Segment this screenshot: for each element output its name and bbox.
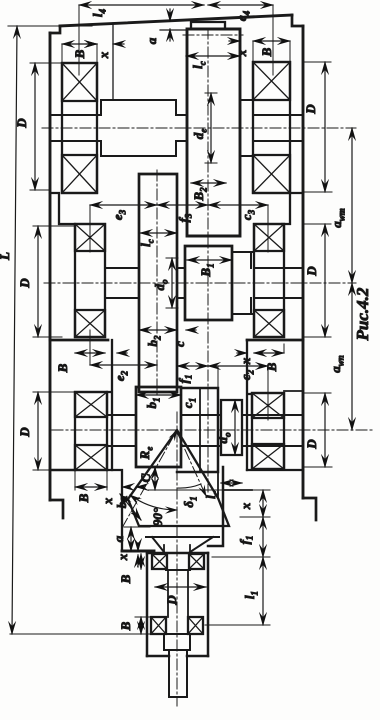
dimension a top gap	[169, 9, 171, 21]
dimension x gap left wall	[117, 352, 127, 354]
bearing B-right lower row	[254, 310, 284, 337]
svg-text:B: B	[72, 49, 87, 59]
bevel wheel face extension down	[217, 472, 219, 498]
shaft A left end	[50, 115, 101, 141]
svg-text:lс: lс	[138, 239, 156, 247]
centerline vertical bevel-pinion shaft	[176, 412, 178, 706]
centerline shaft A (output shaft axis)	[42, 127, 356, 129]
shaft neck into sleeve right	[190, 537, 213, 552]
dimension x housing to sleeve gap	[137, 543, 139, 551]
dimension D bearing C-right	[324, 393, 326, 467]
angle arc delta1	[177, 484, 201, 488]
svg-text:C: C	[138, 473, 153, 482]
bearing B-left outer	[75, 224, 105, 337]
bearing C-right upper row	[252, 393, 284, 418]
housing right wall	[302, 26, 305, 498]
dimension c2	[208, 365, 268, 367]
svg-text:B: B	[118, 574, 133, 584]
vertical shaft collar below lower bearing	[164, 634, 190, 650]
dimension de hub diameter gear A	[210, 93, 212, 163]
svg-text:f3: f3	[176, 213, 194, 222]
svg-text:B: B	[259, 47, 274, 57]
dimension c4	[208, 4, 273, 6]
dimension b2 wheel B width	[139, 329, 177, 331]
svg-text:D: D	[17, 278, 32, 289]
housing inner wall right of cavity upper part	[247, 340, 252, 470]
bearing A-right lower row	[253, 155, 290, 193]
dimension e3	[90, 204, 157, 206]
dimension D bearing A-right	[324, 62, 326, 192]
dimension lc bevel hub length	[221, 482, 242, 484]
svg-text:x: x	[238, 502, 253, 510]
svg-text:90°: 90°	[150, 507, 165, 526]
dimension e2	[90, 364, 157, 366]
dimension c gap wheel B to pinion B	[186, 329, 196, 331]
dimension B bearing V-upper width	[140, 554, 142, 569]
bearing A-left outer	[62, 63, 97, 193]
bevel wheel hub	[221, 400, 242, 455]
svg-text:D: D	[304, 266, 319, 277]
svg-text:x: x	[115, 553, 130, 561]
bearing V-lower right row	[188, 617, 203, 634]
dimension b bevel face width	[120, 494, 141, 520]
centerline gear midplane stage 2	[207, 28, 209, 492]
housing ledge left below B bearing	[50, 339, 108, 342]
svg-text:B: B	[76, 493, 91, 503]
svg-text:e3: e3	[110, 209, 128, 220]
shaft C left section	[107, 415, 136, 446]
svg-text:D: D	[17, 427, 32, 438]
dimension lc hub length gear A	[186, 55, 240, 57]
bearing B-left lower row	[75, 310, 105, 337]
svg-text:awп: awп	[328, 355, 346, 373]
dimension x gap right wall	[237, 352, 247, 354]
dimension x top-left gap	[86, 43, 97, 45]
housing ledge left between A and B bearings	[50, 193, 75, 224]
dimension B bearing A-left width	[62, 43, 97, 45]
housing right lip	[292, 15, 303, 26]
shaft B left section	[105, 268, 139, 298]
bearing A-right outer	[253, 62, 290, 193]
dimension x top-right gap	[229, 40, 240, 42]
bearing B-right outer	[254, 224, 284, 337]
svg-text:f1: f1	[176, 375, 194, 384]
svg-text:x: x	[100, 497, 115, 505]
bevel pinion cone	[128, 430, 229, 526]
bevel pinion back cone face	[146, 536, 219, 538]
svg-text:x: x	[238, 357, 253, 365]
dimension B bearing B-right width	[254, 352, 284, 354]
cone distance line Re	[122, 430, 177, 528]
svg-text:L: L	[0, 252, 12, 261]
gear A rim cap	[191, 22, 225, 29]
shaft A enlarged section	[101, 100, 176, 156]
pinion C stage 1	[136, 387, 181, 467]
housing bevel cavity right wall	[208, 467, 223, 546]
svg-text:D: D	[164, 595, 179, 606]
svg-text:c: c	[172, 341, 187, 347]
svg-text:c4: c4	[234, 10, 252, 21]
centerline shaft B (intermediate shaft axis)	[44, 282, 356, 284]
svg-text:dо: dо	[152, 279, 170, 291]
dimension awt center distance stage 2	[351, 128, 353, 283]
dimension B bearing B-left width	[75, 352, 105, 354]
shaft C right section	[242, 415, 303, 446]
dimension B bearing A-right width	[253, 40, 290, 42]
bearing C-left lower row	[75, 445, 107, 470]
dimension B bearing V-lower width	[140, 617, 142, 634]
svg-text:dе: dе	[191, 129, 209, 140]
pinion B stage 2	[185, 246, 232, 320]
bearing sleeve walls	[147, 553, 208, 656]
dimension l4	[79, 4, 204, 6]
shaft A neck to gear	[176, 115, 187, 141]
bevel wheel face extension up	[217, 366, 219, 388]
dimension D sleeve bore	[155, 586, 206, 588]
centerline shaft C (bevel wheel shaft axis)	[52, 429, 374, 431]
bearing C-right lower row	[252, 444, 284, 469]
dimension D bearing C-left	[37, 392, 39, 470]
svg-text:D: D	[14, 118, 29, 129]
wheel B stage 1	[139, 174, 177, 392]
dimension f3	[157, 204, 208, 206]
housing top edge	[60, 15, 292, 26]
dimension L overall length	[12, 26, 17, 634]
svg-text:B: B	[264, 362, 279, 372]
sleeve bottom face	[147, 655, 208, 658]
dimension a gap to pinion C	[136, 486, 144, 488]
dimension a cone to housing bottom	[130, 527, 132, 551]
housing ledge right below B bearing	[247, 339, 303, 342]
bearing V-upper left row	[152, 554, 167, 569]
dimension f1 column	[262, 517, 264, 557]
housing bottom at sleeve left	[122, 550, 154, 553]
dimension D bearing A-left	[34, 63, 36, 190]
housing ledge at right wall above C bearing	[284, 390, 303, 392]
svg-text:D: D	[304, 439, 319, 450]
dimension l1 bearing span vertical shaft	[262, 557, 264, 625]
housing bottom-left step	[50, 500, 63, 518]
housing seat below C-right bearing	[247, 469, 303, 471]
dimension x bevel column	[262, 490, 264, 517]
pitch cone generator delta1	[177, 432, 206, 496]
housing inner wall left of cavity upper part	[107, 340, 112, 470]
svg-text:b2: b2	[145, 335, 163, 347]
vertical shaft lower end	[169, 650, 187, 697]
bevel wheel web line	[199, 388, 201, 472]
pitch line gear A	[183, 34, 243, 36]
svg-text:b1: b1	[144, 398, 162, 409]
dimension f1 bevel console	[177, 365, 208, 367]
vertical shaft upper section	[164, 545, 190, 554]
dimension C gap pinion C to bevel	[154, 467, 156, 490]
housing bottom-right step	[303, 498, 316, 520]
svg-text:Рис.4.2: Рис.4.2	[353, 287, 372, 341]
dimension do hub diameter wheel B	[171, 258, 173, 308]
shaft B neck between wheel and pinion	[177, 268, 185, 298]
dimension b1 pinion C width	[136, 394, 181, 396]
dimension D bearing B-right	[324, 224, 326, 337]
bearing C-left upper row	[75, 392, 107, 417]
svg-text:f1: f1	[237, 536, 255, 545]
bearing B-left upper row	[75, 224, 105, 251]
shaft B collar right of pinion	[232, 252, 254, 314]
svg-text:c3: c3	[239, 209, 257, 220]
housing ledge right between A and B bearings	[282, 193, 303, 224]
svg-text:c2: c2	[238, 369, 256, 380]
shaft C mid section	[181, 415, 221, 446]
bearing A-left upper row	[62, 63, 97, 101]
housing left lip	[50, 26, 60, 33]
svg-text:x: x	[96, 51, 111, 59]
centerline gear midplane stage 1	[156, 170, 158, 398]
bearing V-lower left row	[151, 617, 166, 634]
dimension B2 gear A rim width	[191, 182, 226, 184]
svg-text:c1: c1	[180, 398, 198, 408]
shaft A right section	[240, 100, 253, 156]
svg-text:a: a	[144, 37, 159, 44]
bevel wheel rim	[177, 388, 218, 472]
gear A big wheel stage 2	[187, 29, 240, 236]
dimension lc hub length wheel B	[140, 232, 177, 234]
dimension B1 pinion B width	[187, 259, 232, 261]
svg-text:B1: B1	[198, 263, 216, 277]
shaft A through right bearing	[253, 115, 303, 141]
sleeve top edge	[147, 552, 208, 555]
housing ledge right of bevel wheel hub	[223, 489, 252, 491]
svg-text:D: D	[303, 104, 318, 115]
housing inner wall left of bevel cavity	[107, 470, 122, 551]
housing seat below C-left bearing	[50, 469, 75, 472]
bearing A-right upper row	[253, 62, 290, 100]
bearing C-left outer	[75, 392, 107, 470]
svg-text:lс: lс	[190, 61, 208, 69]
dimension do bevel wheel hub diameter	[234, 400, 236, 455]
arc 90 degrees	[130, 495, 177, 510]
svg-text:l4: l4	[90, 8, 108, 17]
vertical shaft in sleeve	[168, 570, 188, 617]
svg-text:δ1: δ1	[181, 496, 199, 507]
dimension c3	[208, 204, 268, 206]
bearing A-left lower row	[62, 155, 97, 193]
svg-text:B2: B2	[191, 187, 209, 202]
bearing V-upper right row	[189, 554, 204, 569]
bearing B-right upper row	[254, 224, 284, 251]
housing left wall	[49, 33, 52, 500]
svg-text:B: B	[55, 363, 70, 373]
vertical shaft collar under upper bearing	[166, 569, 190, 571]
dimension awp center distance stage 1	[351, 283, 353, 430]
svg-text:e2: e2	[112, 370, 130, 381]
svg-text:B: B	[118, 621, 133, 631]
dimension x gap housing inner face	[122, 486, 130, 488]
svg-text:l1: l1	[242, 591, 260, 599]
dimension B bearing C-left width	[75, 486, 107, 488]
svg-text:lс: lс	[203, 491, 221, 499]
svg-text:a: a	[111, 535, 126, 542]
dimension D bearing B-left	[37, 226, 39, 337]
svg-text:awт: awт	[329, 208, 347, 228]
bearing C-right outer	[252, 393, 284, 469]
shaft neck into sleeve left	[152, 537, 164, 552]
shaft B through right bearing	[254, 268, 303, 298]
svg-text:Rе: Rе	[137, 447, 155, 461]
svg-text:b: b	[114, 501, 129, 508]
